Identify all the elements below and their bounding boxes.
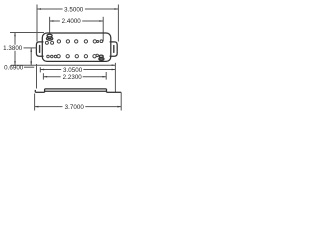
dimension 2.2300 line right segment [83,76,107,78]
side view: left leg tip tick [34,90,36,92]
dimension 2.2300 right arrowhead [102,76,106,78]
dimension 2.4000 right extension line down into body [102,17,104,42]
dimension 2.4000 line right segment [82,20,103,22]
svg-text:3.0500: 3.0500 [63,67,83,74]
pickup body outline (top view) [42,33,111,61]
pole holes row 1 (large) [45,40,102,45]
dimension 2.2300 right tick [105,72,107,80]
side view: right leg line [107,91,122,93]
pole holes row 2 (large) [47,54,99,58]
dimension 1.3800 top extension line [10,32,44,34]
dimension 2.4000 left arrowhead [50,20,54,22]
dimension 3.5000 left tick [36,5,38,14]
left leg screw slot [39,46,41,53]
dimension 3.7000 line left segment [35,106,63,108]
dimension 3.5000 right tick [117,5,119,14]
dimension 3.7000 left extension line [34,94,36,111]
side view: plate top line [45,88,107,90]
dimension 3.0500 line left segment [40,69,61,71]
extension line 3.5000 right (down to leg) [117,13,119,42]
dimension 2.2300 line left segment [43,76,60,78]
dimension 1.3800 vertical line upper segment [14,33,16,45]
dimension 2.4000 right arrowhead [99,20,103,22]
side view: right step [106,89,108,92]
small hole right of row 2 [96,54,98,56]
0.6900 leader line [24,66,34,68]
dimension 1.3800 vertical line lower segment [14,51,16,65]
side view: plate bottom line [45,90,107,92]
svg-text:3.5000: 3.5000 [64,6,84,13]
right leg screw slot [113,46,115,53]
small hole trio left of row 2 [47,55,50,58]
side view: left leg line [35,91,44,93]
dimension 1.3800 bottom arrowhead [14,61,16,65]
bottom reference right tick [114,63,116,68]
dimension 2.4000 line left segment [50,20,60,22]
svg-text:1.3800: 1.3800 [3,45,23,52]
dimension 3.5000 line left segment [37,8,63,10]
extension line 3.5000 left (down to leg) [36,13,38,42]
dimension 2.2300 left tick [42,73,44,79]
dimension 3.5000 left arrowhead [37,8,41,10]
dimension 3.5000 line right segment [85,8,119,10]
dimension 3.0500 left tick [39,67,41,72]
svg-text:0.6900: 0.6900 [4,65,24,72]
svg-text:2.2300: 2.2300 [63,74,83,81]
dimension 3.0500 left arrowhead [41,69,45,71]
dimension 1.3800 top arrowhead [14,33,16,37]
top-left mounting screw (stacked ellipses) [47,34,52,37]
dimension 0.6900 bottom arrowhead [30,61,32,65]
dimension 3.5000 right arrowhead [114,8,118,10]
bottom reference right arrowhead [112,64,116,66]
dimension 3.0500 right arrowhead [112,69,116,71]
side view: left step [44,89,46,92]
left extension line from top legs down to side view [36,64,38,89]
bottom-right mounting screw with slot [99,55,103,57]
dimension 0.6900 top arrowhead [30,48,32,52]
dimension 1.3800 text leader dash / centerline reference [24,47,37,49]
dimension 2.4000 left extension line down to screw [49,17,51,34]
svg-text:3.7000: 3.7000 [65,104,85,111]
dimension 3.7000 left arrowhead [35,106,39,108]
dimension 2.2300 left arrowhead [44,76,48,78]
bottom reference line (1.3800 lower extension) [11,64,115,66]
svg-text:2.4000: 2.4000 [62,18,82,25]
dimension 3.7000 right extension line [120,92,122,110]
left mounting leg [36,42,43,56]
dimension 3.0500 line right segment [83,69,115,71]
small holes left of row 1 [45,41,48,44]
dimension 3.7000 line right segment [85,106,121,108]
shared right extension line down to side view [114,68,116,93]
small holes right of row 1 [97,41,99,43]
right mounting leg [110,42,118,56]
dimension 3.7000 right arrowhead [117,106,121,108]
dimension 0.6900 vertical line [30,48,32,65]
